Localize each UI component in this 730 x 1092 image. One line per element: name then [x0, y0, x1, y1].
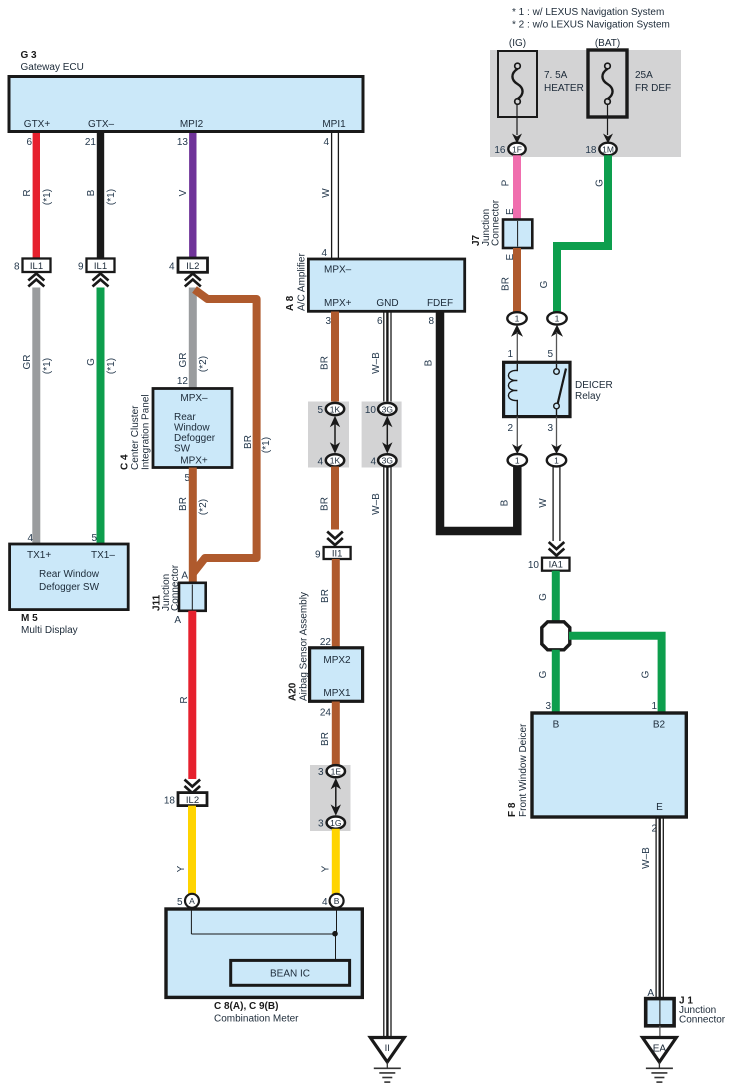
svg-text:W: W: [321, 188, 332, 198]
svg-text:MPX1: MPX1: [323, 688, 351, 699]
chevrons into II1: [327, 532, 343, 546]
svg-text:DEICER: DEICER: [575, 380, 613, 391]
svg-text:EA: EA: [653, 1044, 667, 1055]
svg-text:M 5: M 5: [21, 613, 38, 624]
wire Y yellow 1G to meter pin B: [332, 829, 340, 896]
ground II: [370, 1038, 404, 1083]
svg-text:Connector: Connector: [491, 199, 502, 246]
wire G green 1M to connector 1: [557, 155, 608, 312]
component F8 Front Window Deicer: [507, 713, 686, 817]
wire V violet G3 pin13 to IL2: [189, 133, 196, 259]
svg-text:Rear: Rear: [174, 412, 196, 423]
wire G green IA1 to splice: [552, 571, 560, 623]
svg-text:1M: 1M: [602, 144, 614, 154]
svg-text:GR: GR: [22, 355, 33, 370]
svg-text:G: G: [538, 593, 549, 601]
svg-text:18: 18: [585, 145, 597, 156]
chevrons into IL1 pin8: [28, 274, 44, 287]
svg-text:MPX–: MPX–: [324, 265, 352, 276]
svg-text:MPX–: MPX–: [180, 393, 208, 404]
svg-text:13: 13: [177, 137, 189, 148]
wire BR brown A20 pin24 to 1E: [332, 702, 340, 767]
svg-text:B: B: [86, 189, 97, 196]
svg-text:21: 21: [85, 137, 97, 148]
connector 1 below relay pin2: [508, 454, 527, 466]
svg-text:G: G: [641, 670, 652, 678]
svg-text:BR: BR: [320, 497, 331, 511]
wire BR brown bypass (*1) IL2-4 to J11: [193, 290, 257, 574]
svg-text:B: B: [334, 896, 340, 906]
connector 1 (brown wire): [507, 312, 526, 324]
wire fuse F2 to connector 1M: [607, 104, 609, 135]
svg-text:3: 3: [318, 819, 324, 830]
component C8/C9 Combination Meter: [166, 909, 362, 1025]
meter pin A circle: [185, 894, 199, 908]
svg-text:8: 8: [428, 316, 434, 327]
svg-text:HEATER: HEATER: [544, 83, 584, 94]
svg-text:MPX+: MPX+: [324, 298, 352, 309]
svg-text:G: G: [539, 280, 550, 288]
chevrons into IA1: [549, 542, 565, 556]
svg-text:7. 5A: 7. 5A: [544, 70, 568, 81]
svg-text:Center Cluster: Center Cluster: [130, 405, 141, 470]
svg-text:W: W: [538, 498, 549, 508]
svg-text:BR: BR: [320, 732, 331, 746]
svg-text:16: 16: [494, 145, 506, 156]
junction connector J11: [152, 564, 206, 611]
svg-text:3G: 3G: [382, 404, 393, 414]
svg-text:A: A: [174, 615, 181, 626]
svg-text:Integration Panel: Integration Panel: [141, 394, 152, 470]
svg-text:Front Window Deicer: Front Window Deicer: [518, 723, 529, 817]
splice octagon: [542, 622, 570, 650]
svg-text:4: 4: [321, 248, 327, 259]
svg-text:1E: 1E: [331, 767, 342, 777]
relay stem pin 2: [516, 417, 518, 447]
svg-text:18: 18: [164, 796, 176, 807]
svg-text:W–B: W–B: [641, 847, 652, 869]
svg-text:IL1: IL1: [30, 261, 43, 272]
svg-text:4: 4: [370, 457, 376, 468]
svg-text:5: 5: [177, 897, 183, 908]
svg-text:BR: BR: [320, 589, 331, 603]
wire W white G3 pin4 to A8 pin4: [332, 133, 339, 259]
junction connector J7: [471, 199, 532, 248]
wire B black A8 pin8 to connector 1 below relay: [440, 312, 517, 532]
splice block 3G background: [362, 402, 402, 468]
svg-text:(*1): (*1): [106, 358, 117, 374]
wire BR brown J7 to connector 1: [513, 248, 521, 312]
svg-text:BR: BR: [501, 277, 512, 291]
double arrow between 3G ovals: [382, 416, 392, 454]
svg-text:(*2): (*2): [198, 499, 209, 515]
svg-text:A: A: [181, 571, 188, 582]
wire Y yellow IL2-18 to meter pin A: [188, 806, 196, 896]
component A8 A/C Amplifier: [285, 253, 465, 312]
svg-text:10: 10: [528, 560, 540, 571]
svg-text:IL1: IL1: [94, 261, 107, 272]
splice block 1K background: [308, 402, 349, 468]
svg-text:IL2: IL2: [186, 261, 199, 272]
svg-text:(IG): (IG): [509, 38, 526, 49]
svg-text:Combination Meter: Combination Meter: [214, 1014, 299, 1025]
svg-text:II1: II1: [332, 549, 343, 560]
wire BR brown II1 to A20 pin22: [332, 559, 340, 648]
wire BR brown (*2) C4 pin5 to J11: [189, 468, 197, 583]
svg-text:MPI2: MPI2: [180, 119, 204, 130]
svg-text:Y: Y: [321, 865, 332, 872]
wire G green splice to F8 pin3: [552, 650, 560, 713]
svg-text:12: 12: [177, 376, 189, 387]
svg-text:BR: BR: [243, 435, 254, 449]
svg-text:8: 8: [14, 262, 20, 273]
svg-text:B: B: [553, 720, 560, 731]
svg-text:B: B: [424, 359, 435, 366]
svg-text:2: 2: [507, 423, 513, 434]
svg-text:(*1): (*1): [261, 437, 272, 453]
svg-text:A20: A20: [288, 682, 299, 701]
svg-text:SW: SW: [174, 444, 191, 455]
svg-text:(*1): (*1): [42, 358, 53, 374]
svg-text:4: 4: [169, 262, 175, 273]
svg-text:1: 1: [507, 349, 513, 360]
svg-text:3: 3: [325, 316, 331, 327]
connector 1 (green wire): [547, 312, 566, 324]
svg-text:1K: 1K: [330, 456, 341, 466]
svg-text:G: G: [86, 358, 97, 366]
svg-text:24: 24: [320, 708, 332, 719]
chevrons into IL1 pin9: [93, 274, 109, 287]
wire R red G3 pin6 to IL1: [33, 133, 40, 259]
svg-text:10: 10: [365, 405, 377, 416]
wire P pink 1F to J7: [513, 155, 521, 219]
svg-text:BR: BR: [178, 497, 189, 511]
svg-text:4: 4: [27, 533, 33, 544]
svg-text:1: 1: [515, 456, 520, 466]
svg-text:W–B: W–B: [371, 493, 382, 515]
wire W-B A8 pin6 to 3G: [384, 312, 391, 405]
svg-text:BEAN IC: BEAN IC: [270, 969, 310, 980]
svg-text:Window: Window: [174, 423, 210, 434]
svg-text:Y: Y: [176, 865, 187, 872]
svg-text:Relay: Relay: [575, 391, 601, 402]
svg-text:3: 3: [547, 423, 553, 434]
svg-text:A: A: [189, 896, 195, 906]
svg-text:B: B: [500, 499, 511, 506]
component A20 Airbag Sensor Assembly: [288, 592, 363, 701]
svg-text:1: 1: [554, 456, 559, 466]
svg-text:1K: 1K: [330, 404, 341, 414]
svg-text:E: E: [656, 802, 663, 813]
double arrow between 1K ovals: [330, 416, 340, 454]
wire R red J11 to IL2-18: [188, 611, 196, 779]
wire W-B F8 pinE to J1: [656, 817, 663, 999]
svg-text:P: P: [501, 179, 512, 186]
relay stem pin 3: [556, 417, 558, 447]
svg-text:1: 1: [651, 701, 657, 712]
wire J1 to ground EA: [659, 1026, 661, 1038]
ground EA: [643, 1038, 677, 1083]
arrowhead up into connector 1: [551, 325, 563, 337]
svg-text:IL2: IL2: [186, 795, 199, 806]
svg-text:1: 1: [555, 314, 560, 324]
splice block 1E/1G background: [310, 765, 351, 831]
svg-text:(BAT): (BAT): [595, 38, 620, 49]
svg-text:4: 4: [322, 897, 328, 908]
wire GR gray IL1-8 to M5 TX1+: [32, 288, 40, 545]
svg-text:4: 4: [317, 457, 323, 468]
svg-text:GTX–: GTX–: [88, 119, 115, 130]
relay stem pin 1: [516, 332, 518, 362]
svg-text:E: E: [505, 208, 516, 215]
fuse F2 25A FR DEF (BAT): [588, 38, 671, 117]
component M5 Multi Display (Rear Window Defogger SW): [10, 544, 129, 636]
wire G green splice branch to F8 pin1: [569, 636, 662, 713]
connector 1 below relay pin3: [547, 454, 566, 466]
svg-text:B2: B2: [653, 720, 666, 731]
svg-text:TX1–: TX1–: [91, 550, 115, 561]
svg-text:5: 5: [317, 405, 323, 416]
svg-text:FDEF: FDEF: [427, 298, 453, 309]
chevrons into IL2 pin18: [185, 780, 201, 794]
arrowhead down into connector 1 (pin2): [512, 444, 523, 454]
wire BR brown 1K-4 to II1: [331, 467, 339, 530]
svg-text:Airbag Sensor Assembly: Airbag Sensor Assembly: [299, 592, 310, 701]
svg-text:GR: GR: [178, 353, 189, 368]
svg-text:BR: BR: [320, 356, 331, 370]
wire BR brown A8 pin3 to 1K: [331, 312, 339, 404]
svg-text:Rear Window: Rear Window: [39, 569, 100, 580]
svg-text:MPX+: MPX+: [180, 456, 208, 467]
svg-text:G 3: G 3: [21, 50, 38, 61]
fuse block background: [490, 50, 681, 157]
svg-text:C 4: C 4: [120, 454, 131, 470]
svg-text:(*2): (*2): [198, 356, 209, 372]
svg-text:IA1: IA1: [549, 560, 563, 571]
svg-text:Multi Display: Multi Display: [21, 625, 78, 636]
svg-text:1F: 1F: [512, 144, 522, 154]
junction connector J1: [646, 996, 726, 1026]
svg-text:3: 3: [545, 701, 551, 712]
svg-text:3: 3: [318, 767, 324, 778]
svg-text:1: 1: [515, 314, 520, 324]
svg-text:9: 9: [315, 550, 321, 561]
relay stem pin 5: [556, 332, 558, 362]
svg-text:MPI1: MPI1: [322, 119, 346, 130]
svg-text:* 1 : w/ LEXUS Navigation Syst: * 1 : w/ LEXUS Navigation System: [512, 7, 664, 18]
wire G green IL1-9 to M5 TX1-: [97, 288, 105, 545]
svg-text:9: 9: [78, 262, 84, 273]
svg-text:GND: GND: [376, 298, 398, 309]
svg-text:MPX2: MPX2: [323, 655, 351, 666]
svg-text:Connector: Connector: [170, 564, 181, 611]
double arrow between 1E and 1G: [331, 778, 341, 816]
wire fuse F1 to connector 1F: [516, 104, 518, 135]
meter pin B circle: [330, 894, 344, 908]
svg-text:1G: 1G: [330, 818, 341, 828]
component G3 Gateway ECU: [9, 50, 363, 132]
wire GR gray IL2-4 to C4 pin12: [189, 288, 197, 389]
svg-text:TX1+: TX1+: [27, 550, 51, 561]
svg-text:FR DEF: FR DEF: [635, 83, 671, 94]
arrowhead up into connector 1: [511, 325, 523, 337]
svg-text:GTX+: GTX+: [24, 119, 51, 130]
svg-text:C 8(A), C 9(B): C 8(A), C 9(B): [214, 1001, 278, 1012]
chevrons into IL2 pin4: [185, 274, 201, 287]
svg-text:6: 6: [377, 316, 383, 327]
svg-text:3G: 3G: [382, 456, 393, 466]
svg-text:W–B: W–B: [371, 352, 382, 374]
svg-text:II: II: [385, 1043, 390, 1054]
svg-text:F 8: F 8: [507, 802, 518, 817]
svg-text:(*1): (*1): [106, 189, 117, 205]
svg-text:Defogger SW: Defogger SW: [39, 582, 100, 593]
fuse F1 7.5A HEATER (IG): [498, 38, 584, 117]
svg-text:5: 5: [91, 533, 97, 544]
svg-text:G: G: [595, 179, 606, 187]
wire W-B 3G-4 to ground II: [384, 467, 391, 1040]
arrowhead down into connector 1 (pin3): [551, 444, 562, 454]
svg-text:4: 4: [323, 137, 329, 148]
wire B black G3 pin21 to IL1: [97, 133, 104, 259]
svg-text:V: V: [178, 189, 189, 196]
svg-text:A/C Amplifier: A/C Amplifier: [297, 253, 308, 311]
svg-text:* 2 : w/o LEXUS Navigation Sys: * 2 : w/o LEXUS Navigation System: [512, 20, 670, 31]
svg-text:Connector: Connector: [679, 1015, 726, 1026]
svg-text:Defogger: Defogger: [174, 433, 216, 444]
wire W white connector1 to IA1: [553, 467, 560, 542]
svg-text:R: R: [22, 189, 33, 196]
svg-text:(*1): (*1): [42, 189, 53, 205]
svg-text:Gateway ECU: Gateway ECU: [21, 62, 84, 73]
component C4 Center Cluster Integration Panel: [120, 389, 233, 471]
svg-text:G: G: [538, 670, 549, 678]
svg-text:6: 6: [26, 137, 32, 148]
DEICER Relay: [504, 362, 613, 416]
svg-text:R: R: [179, 696, 190, 703]
svg-text:25A: 25A: [635, 70, 653, 81]
svg-text:5: 5: [547, 349, 553, 360]
svg-text:A 8: A 8: [285, 295, 296, 311]
